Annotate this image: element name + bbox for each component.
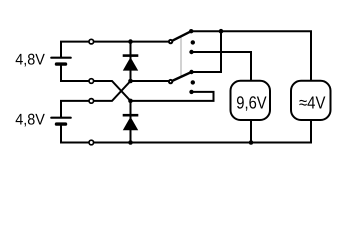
node: connector circle on bottom rail [89,140,94,145]
switch S1 lower throw contact [189,50,193,54]
svg-text:4,8V: 4,8V [15,51,45,68]
box: output ≈4V [291,81,331,120]
battery B2 long plate (positive) [51,117,70,119]
diode D1 body line [130,42,132,81]
node: connector circle on B2 top wire [89,99,94,104]
diode D2 body line [130,101,132,143]
switch S2 lower throw contact [189,90,193,94]
wire: switch S1 upper throw to right rail, down to box ≈4V top [191,31,311,81]
switch S1 middle throw contact [191,40,195,44]
battery B2 short plate (negative) [57,122,66,125]
switch S2 upper throw contact [189,70,193,74]
wire: switch S1 lower throw right, down to box 9,6V top [192,52,252,81]
wire: diode D1 bottom node to switch S2 pole [131,80,170,82]
diode D2 triangle (anode, pointing up) [123,117,138,130]
wire: battery B1 negative down, right, and crossover diagonal to diode D2 top [61,64,131,101]
wire: diode D2 top node right, up to switch S2 lower throw [131,92,214,101]
switch S2 pole contact [169,80,172,83]
wire: battery B1 positive up and top rail to switch S1 pole [61,42,170,59]
switch S2 middle throw contact [191,80,195,84]
switch S2 lever [171,72,192,82]
junction: diode D2 bottom node [128,140,133,145]
diode D1 triangle (anode, pointing up) [123,57,138,70]
svg-text:≈4V: ≈4V [299,93,326,113]
junction: diode D1 top node [128,39,133,44]
wire: battery B2 positive up, right, crossover diagonal to diode D1 bottom [61,81,131,118]
svg-text:4,8V: 4,8V [15,111,45,128]
diode D1 cathode bar [123,54,139,57]
junction: node at x=221 on top rail [219,29,224,34]
diode D2 cathode bar [123,114,139,117]
box: output 9,6V [231,81,271,120]
wire: box 9,6V bottom to bottom rail [250,120,252,143]
node: connector circle on B1 top rail [89,39,94,44]
switch S1 pole contact [169,40,172,43]
junction: diode D2 top node [128,99,133,104]
battery B1 short plate (negative) [57,62,66,65]
wire: from top-rail junction down and left to switch S2 upper throw [192,31,222,72]
svg-text:9,6V: 9,6V [236,93,267,113]
node: connector circle on B1 bottom wire [89,79,94,84]
wire: battery B2 negative down and bottom rail, up to box ≈4V bottom [61,120,311,143]
switch S1 lever [171,31,192,41]
junction: diode D1 bottom node [128,79,133,84]
junction: bottom rail at box 9,6V [249,140,254,145]
switch S1/S2 mechanical linkage (dashed grey) [180,37,182,77]
battery B1 long plate (positive) [51,57,70,59]
switch S1 upper throw contact [189,29,193,33]
